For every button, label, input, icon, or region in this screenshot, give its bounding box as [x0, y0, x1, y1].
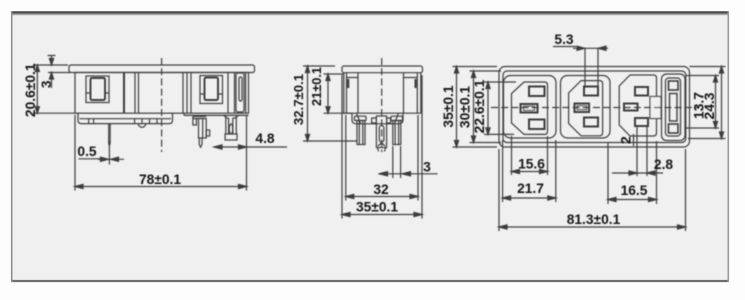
socket2 slots — [584, 87, 598, 96]
body partition lines — [134, 73, 136, 114]
dashed centerline right view — [491, 107, 699, 109]
fuse inner — [666, 78, 681, 136]
svg-text:21.7: 21.7 — [517, 181, 544, 196]
body shelves — [347, 77, 418, 79]
dim 21 lines — [324, 74, 353, 113]
skirt below body — [78, 113, 173, 123]
dim 24.3 — [688, 67, 726, 139]
socket1 C13 profile — [512, 82, 548, 134]
svg-text:15.6: 15.6 — [518, 157, 545, 172]
dim 21.7 — [503, 140, 556, 202]
dim 78 — [75, 115, 247, 191]
svg-text:4.8: 4.8 — [255, 131, 275, 146]
body partition line thick — [123, 73, 125, 114]
dim 20.6 lines — [33, 65, 75, 113]
dim 3 left lines — [48, 56, 71, 89]
svg-text:24.3: 24.3 — [702, 92, 717, 119]
skirt inner line — [80, 118, 172, 120]
dim 15.6 — [512, 136, 548, 175]
body inner cavity walls — [358, 73, 404, 114]
cell3 notch to fuse — [650, 97, 661, 119]
body outline — [75, 73, 249, 114]
svg-text:5.3: 5.3 — [554, 32, 574, 47]
svg-text:32: 32 — [373, 182, 389, 197]
earth middle pin — [376, 116, 386, 148]
svg-text:78±0.1: 78±0.1 — [139, 172, 181, 187]
dashed centerline middle view — [381, 58, 383, 152]
dim 5.3 — [553, 47, 608, 89]
fuse strip inner slot — [239, 77, 242, 101]
dim 4.8 — [214, 146, 287, 148]
fuse middle window — [670, 94, 678, 122]
dim 2 marker — [633, 134, 635, 146]
clip A pin — [199, 138, 202, 147]
svg-text:3: 3 — [423, 160, 431, 175]
dim 32 — [346, 115, 418, 201]
cell 1 rect — [504, 76, 557, 139]
skirt bump — [138, 124, 145, 128]
body bottom — [344, 112, 421, 114]
svg-text:21±0.1: 21±0.1 — [309, 67, 324, 106]
window detail 1 feet — [86, 92, 109, 94]
window detail 2 feet — [200, 93, 223, 95]
svg-text:3: 3 — [39, 80, 54, 88]
dim 32.7 lines — [303, 66, 357, 141]
earth middle pin ears — [372, 118, 391, 123]
skirt slants — [357, 113, 399, 123]
dim 35 bottom — [342, 75, 422, 219]
svg-text:16.5: 16.5 — [621, 183, 648, 198]
dim 22.6 right view — [484, 82, 516, 134]
dim 81.3 — [499, 149, 686, 231]
window detail 2 inner — [205, 78, 219, 101]
dim 16.5 — [608, 141, 657, 204]
panel left edge — [11, 11, 13, 282]
dim 0.5 leader — [79, 158, 125, 161]
skirt small tabs — [89, 119, 157, 124]
fuse strip side — [236, 73, 244, 112]
latch marks — [347, 79, 349, 88]
svg-text:30±0.1: 30±0.1 — [458, 86, 473, 128]
svg-text:22.6±0.1: 22.6±0.1 — [472, 79, 487, 133]
window detail 1 outer — [86, 76, 109, 103]
socket2 C13 profile — [569, 81, 603, 136]
panel top shadow edge — [11, 11, 729, 14]
svg-text:81.3±0.1: 81.3±0.1 — [567, 212, 621, 227]
ledge line right section — [184, 114, 249, 116]
right pin cap — [391, 116, 403, 120]
svg-text:0.5: 0.5 — [77, 144, 97, 159]
socket1 slots — [529, 87, 545, 97]
cell3 slots — [635, 87, 648, 96]
panel bottom shadow edge — [11, 280, 729, 282]
fuse bottom cap — [669, 124, 679, 133]
dashed centerline left view — [161, 58, 163, 152]
window detail 2 outer — [200, 76, 223, 104]
svg-text:35±0.1: 35±0.1 — [441, 85, 456, 127]
svg-text:20.6±0.1: 20.6±0.1 — [23, 63, 38, 117]
pin 0.5 — [109, 124, 110, 146]
dim 30 right view — [470, 71, 502, 143]
inner rect — [503, 71, 686, 143]
dim 13.7 — [686, 76, 719, 129]
fuse drawer outer — [662, 74, 686, 141]
cell3 C14 face — [619, 75, 656, 136]
fuse top cap — [669, 81, 679, 90]
clip B posts with hole — [224, 115, 229, 134]
svg-text:32.7±0.1: 32.7±0.1 — [291, 74, 306, 125]
right pin — [393, 121, 401, 145]
window detail 1 inner — [91, 78, 106, 100]
dim 2.8 — [612, 126, 663, 176]
skirt end — [352, 113, 403, 124]
flange end — [342, 66, 423, 73]
cell 2 rect — [561, 76, 611, 139]
panel right edge — [727, 11, 729, 282]
left pin — [357, 121, 365, 145]
svg-text:35±0.1: 35±0.1 — [356, 200, 398, 215]
dim 35 right view — [453, 67, 498, 148]
svg-text:2: 2 — [619, 136, 634, 144]
dim 3 middle lines — [378, 146, 437, 178]
left pin cap — [355, 116, 367, 120]
flange top plate — [69, 65, 255, 73]
clip A bracket — [193, 116, 206, 118]
body outer walls — [344, 73, 421, 114]
outer rect — [499, 67, 690, 148]
svg-text:2.8: 2.8 — [654, 157, 674, 172]
